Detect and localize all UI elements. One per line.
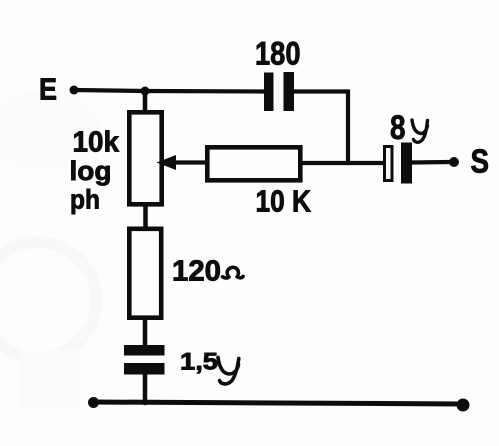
svg-text:10k: 10k [73, 126, 120, 158]
svg-text:S: S [471, 143, 490, 180]
svg-text:8: 8 [390, 109, 406, 147]
svg-text:ph: ph [70, 185, 100, 215]
svg-text:E: E [39, 73, 57, 107]
svg-text:log: log [70, 156, 112, 186]
svg-text:10 K: 10 K [256, 185, 312, 219]
svg-text:180: 180 [255, 36, 301, 72]
svg-text:120: 120 [172, 255, 221, 287]
svg-text:1,5: 1,5 [180, 349, 218, 376]
